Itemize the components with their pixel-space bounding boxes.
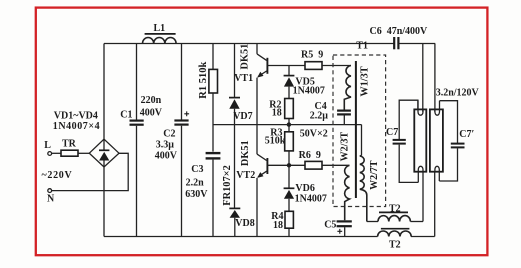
- diode VD8: [229, 208, 254, 236]
- resistor R5: [301, 49, 351, 69]
- svg-text:400V: 400V: [155, 151, 178, 162]
- diode VD5: [284, 66, 325, 99]
- svg-text:~220V: ~220V: [42, 170, 73, 181]
- terminal L: [44, 140, 51, 156]
- label VD1~VD4 1N4007x4: [53, 111, 100, 132]
- transformer T2 upper winding: [367, 204, 423, 222]
- winding W2/7T: [360, 125, 380, 222]
- svg-text:C6 47n/400V: C6 47n/400V: [370, 26, 429, 37]
- transformer T2 lower winding: [378, 229, 412, 251]
- label 50Vx2: [300, 129, 328, 140]
- lamp tube 1: [414, 100, 426, 182]
- resistor R2: [269, 99, 293, 132]
- wire: left rail from top rail to bridge: [103, 44, 105, 140]
- svg-text:W1/3T: W1/3T: [359, 66, 370, 96]
- capacitor C5: [324, 220, 352, 237]
- capacitor C3: [185, 153, 220, 236]
- resistor R4: [271, 211, 293, 236]
- svg-text:VD7: VD7: [233, 111, 252, 122]
- svg-text:510k: 510k: [265, 135, 286, 146]
- svg-text:220n: 220n: [141, 95, 162, 106]
- svg-text:2.2n: 2.2n: [186, 177, 205, 188]
- svg-text:18: 18: [273, 220, 283, 231]
- svg-text:C2: C2: [163, 129, 175, 140]
- capacitor C7: [386, 100, 418, 182]
- svg-text:630V: 630V: [185, 189, 208, 200]
- wire: top rail drop to lamp2 filament: [434, 44, 436, 112]
- svg-text:1N4007×4: 1N4007×4: [53, 121, 100, 132]
- wire: bottom negative rail: [104, 236, 435, 238]
- svg-text:W2/3T: W2/3T: [340, 132, 351, 162]
- svg-text:DK51: DK51: [240, 140, 251, 166]
- svg-text:FR107×2: FR107×2: [222, 165, 233, 206]
- resistor R1: [198, 44, 218, 152]
- svg-text:L1: L1: [154, 23, 166, 34]
- transformer T1 dashed box: [333, 41, 386, 207]
- T1 core: [355, 61, 357, 198]
- capacitor C2: [155, 44, 189, 237]
- terminal N: [47, 189, 55, 205]
- wire: left rail bridge to bottom rail: [103, 166, 105, 236]
- svg-text:L: L: [44, 140, 51, 151]
- svg-text:C1: C1: [120, 110, 132, 121]
- wire: VT2 base line: [267, 164, 305, 166]
- wire: N to bridge right vertex: [52, 153, 129, 190]
- wire: top rail drop to lamp1 filament: [422, 44, 424, 112]
- svg-text:R1 510k: R1 510k: [198, 62, 209, 99]
- node: VT2 base junction: [287, 163, 291, 167]
- capacitor C4: [310, 101, 351, 125]
- svg-text:C7′: C7′: [459, 129, 474, 140]
- inductor L1: [143, 23, 177, 44]
- svg-text:W2/7T: W2/7T: [369, 160, 380, 190]
- wire: lamp1 lower inner lead: [422, 172, 424, 222]
- svg-text:C3: C3: [191, 164, 203, 175]
- capacitor C7': [439, 101, 474, 181]
- svg-text:R5 9: R5 9: [301, 49, 323, 60]
- diode VD6: [284, 165, 327, 211]
- capacitor C6: [370, 26, 429, 50]
- winding W1/3T: [344, 66, 370, 111]
- winding W2/3T: [340, 132, 351, 221]
- svg-text:DK51: DK51: [240, 44, 251, 70]
- svg-text:T1: T1: [356, 41, 368, 52]
- transistor VT2: [236, 140, 267, 236]
- svg-text:3.3μ: 3.3μ: [156, 139, 175, 150]
- bridge rectifier VD1~VD4: [89, 139, 119, 167]
- svg-text:400V: 400V: [140, 107, 163, 118]
- svg-text:VT1: VT1: [234, 73, 253, 84]
- svg-text:2.2μ: 2.2μ: [310, 111, 329, 122]
- label 3.2n/120V: [436, 88, 480, 99]
- svg-text:1N4007: 1N4007: [293, 86, 325, 97]
- svg-text:3.2n/120V: 3.2n/120V: [436, 88, 480, 99]
- svg-text:TR: TR: [62, 138, 77, 149]
- wire: VT1 base line: [267, 65, 305, 67]
- wire: top DC rail: [104, 43, 435, 45]
- svg-text:18: 18: [272, 107, 282, 118]
- diode VD7: [229, 44, 253, 209]
- svg-text:VD8: VD8: [235, 218, 254, 229]
- svg-text:VD1~VD4: VD1~VD4: [54, 111, 98, 122]
- svg-text:1N4007: 1N4007: [295, 194, 327, 205]
- fuse TR: [52, 138, 90, 156]
- svg-text:VT2: VT2: [236, 170, 255, 181]
- resistor R3: [265, 128, 294, 166]
- svg-text:N: N: [47, 194, 55, 205]
- lamp tube 2: [430, 101, 443, 181]
- wire: lamp2 lower inner lead: [434, 172, 436, 237]
- label ~220V: [42, 170, 73, 181]
- svg-text:C7: C7: [386, 127, 398, 138]
- svg-text:T2: T2: [389, 204, 401, 215]
- svg-text:50V×2: 50V×2: [300, 129, 328, 140]
- capacitor C1: [120, 44, 163, 237]
- svg-text:T2: T2: [389, 240, 401, 251]
- resistor R6: [299, 150, 350, 169]
- transistor VT1: [234, 44, 267, 155]
- label FR107x2: [222, 165, 233, 206]
- svg-text:C5: C5: [324, 220, 336, 231]
- wire: midpoint horizontal wire: [213, 124, 362, 126]
- node: half-bridge midpoint junction: [287, 122, 291, 126]
- svg-text:R6 9: R6 9: [299, 150, 321, 161]
